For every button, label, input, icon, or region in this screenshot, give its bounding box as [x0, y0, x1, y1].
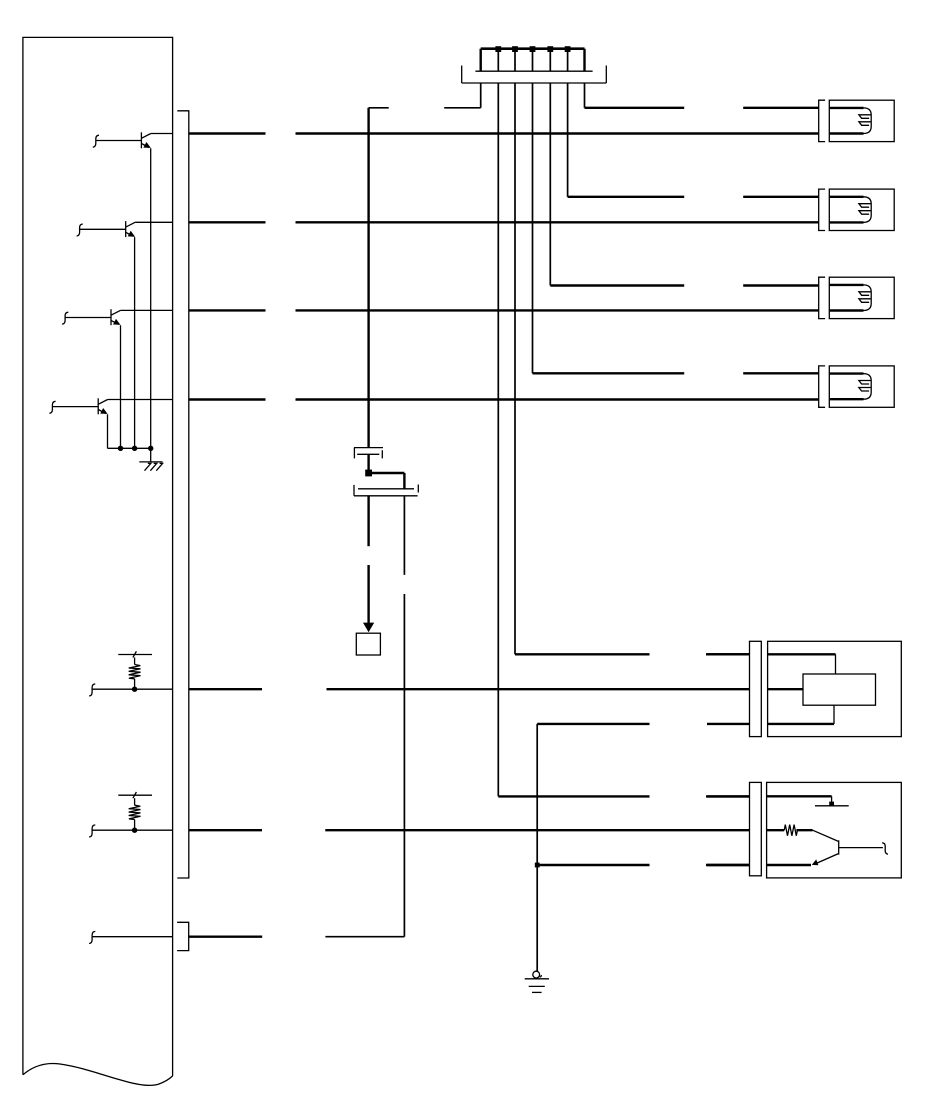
- transistor Q3: [62, 309, 120, 448]
- wire: Q2 collector inside ECU: [135, 221, 173, 223]
- flow arrowhead: [363, 623, 374, 633]
- injector 4 coil: [829, 374, 871, 400]
- valve A internal wires: [768, 654, 836, 724]
- injector 2 coil: [829, 197, 871, 223]
- wire: comb vertical 3 (to valve A top): [515, 83, 750, 654]
- transistor Q1: [93, 132, 151, 448]
- injector 2 body: [829, 189, 894, 230]
- junction dot: [118, 446, 123, 451]
- wire: sensor B top stub: [706, 795, 750, 797]
- sensor B connector: [750, 782, 762, 875]
- connector J1 (row, female): [475, 70, 592, 72]
- wire: valve A bottom stub: [707, 723, 750, 725]
- injector 3 connector: [819, 277, 825, 318]
- injector 4 connector: [819, 366, 825, 407]
- transistor Q4: [49, 398, 107, 448]
- wire: left chain to capacitor: [369, 108, 389, 448]
- bus drop pin 5: [547, 46, 553, 71]
- wire: long vertical to row 7 (broken): [403, 496, 405, 937]
- bus drop pin 6: [565, 46, 571, 71]
- wire: comb vertical 1 (to left chain): [444, 83, 481, 108]
- transistor Q5 (inside sensor B): [812, 830, 888, 865]
- injector 1 connector: [819, 100, 825, 141]
- wire: comb vertical 4 (to injector 4 top): [533, 83, 819, 373]
- bus drop pin 2: [495, 46, 501, 71]
- wire: branch to sensor B bottom: [537, 864, 749, 866]
- node stub row 5 (inside ECU): [89, 684, 173, 696]
- internal ground (chassis): [139, 448, 162, 470]
- wire: comb vertical 7 (to injector 1 top): [585, 83, 819, 108]
- wire: node branch to C2: [369, 473, 405, 489]
- bus drop pin 7: [583, 49, 585, 71]
- wire: arrow feed (broken): [367, 496, 369, 623]
- injector 1 coil: [829, 108, 871, 134]
- injector 2 connector: [819, 189, 825, 230]
- wire: comb vertical 6 (to injector 2 top): [568, 83, 819, 197]
- valve A inner plunger: [803, 674, 876, 705]
- valve A connector: [750, 641, 762, 736]
- injector 1 body: [829, 100, 894, 141]
- junction dot: [132, 446, 137, 451]
- sensor B body: [767, 782, 902, 878]
- wire: ground drop from valve A bottom: [537, 724, 649, 971]
- resistor R3 (inside sensor B): [767, 825, 813, 836]
- wire: Q4 collector inside ECU: [108, 399, 173, 401]
- connector J1 (row, male): [462, 66, 607, 84]
- bus drop pin 3: [512, 46, 518, 71]
- terminal box: [356, 633, 380, 655]
- connector pair C1: [354, 448, 383, 459]
- wire: row 6 harness: [189, 829, 750, 831]
- wire: Q1 collector inside ECU: [151, 133, 173, 135]
- ECU connector bracket (bottom pin): [177, 922, 189, 950]
- emitter common rail: [108, 447, 151, 449]
- node stub row 7 (inside ECU): [89, 931, 173, 943]
- injector 3 coil: [829, 285, 871, 311]
- resistor R1: [118, 651, 152, 692]
- earth ground G2: [525, 971, 549, 992]
- sensor B bottom wire: [767, 864, 811, 866]
- wire: comb vertical 5 (to injector 3 top): [550, 83, 818, 286]
- wire: injector row 2 harness: [189, 221, 819, 223]
- injector 3 body: [829, 277, 894, 318]
- wire: injector row 1 harness: [189, 132, 819, 134]
- valve A body: [768, 641, 902, 736]
- wire: comb vertical 2 (to sensor B top): [498, 83, 749, 796]
- resistor R2: [118, 792, 152, 833]
- node junction (square): [365, 470, 372, 477]
- wire: Q3 collector inside ECU: [120, 309, 172, 311]
- connector pair C2: [354, 485, 418, 496]
- sensor B contact pin: [767, 796, 849, 806]
- node stub row 6 (inside ECU): [89, 825, 173, 837]
- bus drop pin 4: [530, 46, 536, 71]
- ECU block U1 (torn-edge box): [23, 37, 173, 1085]
- wire: injector row 3 harness: [189, 309, 819, 311]
- wire: valve A top stub: [706, 653, 750, 655]
- injector 4 body: [829, 366, 894, 407]
- power bus bar (top): [481, 47, 585, 50]
- wire: sensor B bottom stub: [706, 864, 750, 866]
- wire: row 5 harness: [189, 688, 750, 690]
- wire: injector row 4 harness: [189, 398, 819, 400]
- ECU connector bracket (main): [177, 111, 189, 878]
- bus drop pin 1: [480, 49, 482, 71]
- transistor Q2: [77, 221, 136, 448]
- wire: C1 to node: [367, 454, 369, 473]
- junction (square): [535, 863, 540, 868]
- wire: row 7 harness: [189, 936, 405, 938]
- junction dot: [148, 446, 153, 451]
